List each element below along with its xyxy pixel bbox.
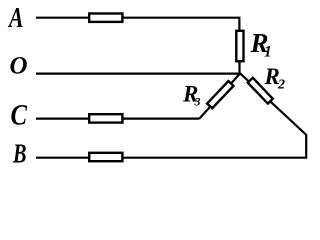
svg-text:2: 2 (277, 77, 285, 92)
svg-text:3: 3 (194, 94, 201, 108)
svg-text:A: A (7, 3, 23, 34)
svg-text:C: C (11, 98, 28, 131)
svg-text:B: B (12, 137, 26, 167)
svg-text:O: O (10, 52, 28, 79)
svg-text:1: 1 (264, 44, 272, 61)
